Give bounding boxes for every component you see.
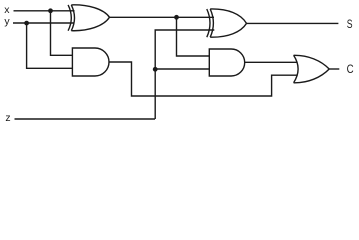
junction dot on x wire bbox=[48, 8, 53, 13]
wire y input horizontal bbox=[13, 22, 75, 24]
wire x input horizontal bbox=[14, 10, 75, 12]
xor gate U1 (x XOR y) bbox=[68, 5, 109, 31]
wire sum riser to AND2 upper input bbox=[177, 17, 210, 56]
wire z branch to AND2 lower input bbox=[155, 68, 209, 70]
and gate U4 (sum AND z) bbox=[209, 49, 244, 76]
wire y riser to AND1 lower input bbox=[27, 23, 73, 68]
svg-text:x: x bbox=[4, 4, 10, 16]
junction dot on y wire bbox=[24, 21, 29, 26]
wire z riser to XOR2 lower input bbox=[155, 30, 214, 119]
svg-text:C: C bbox=[347, 62, 354, 76]
svg-text:y: y bbox=[4, 15, 10, 27]
svg-text:S: S bbox=[347, 17, 353, 31]
junction dot on z riser bbox=[153, 67, 158, 72]
svg-text:z: z bbox=[5, 112, 10, 124]
wire z input horizontal bbox=[15, 118, 156, 120]
junction dot on xor1 output bbox=[174, 15, 179, 20]
wire C output bbox=[329, 68, 339, 70]
or gate U5 (carry OR) bbox=[294, 55, 330, 83]
and gate U2 (x AND y) bbox=[72, 48, 109, 76]
xor gate U3 (sum XOR z) bbox=[207, 9, 247, 37]
wire S output bbox=[247, 22, 339, 24]
wire AND2 output to OR upper input bbox=[245, 61, 298, 63]
wire x riser to AND1 upper input bbox=[51, 11, 73, 56]
wire XOR1 output to XOR2 upper input bbox=[110, 16, 215, 18]
wire AND1 output to OR lower input bbox=[109, 62, 298, 96]
